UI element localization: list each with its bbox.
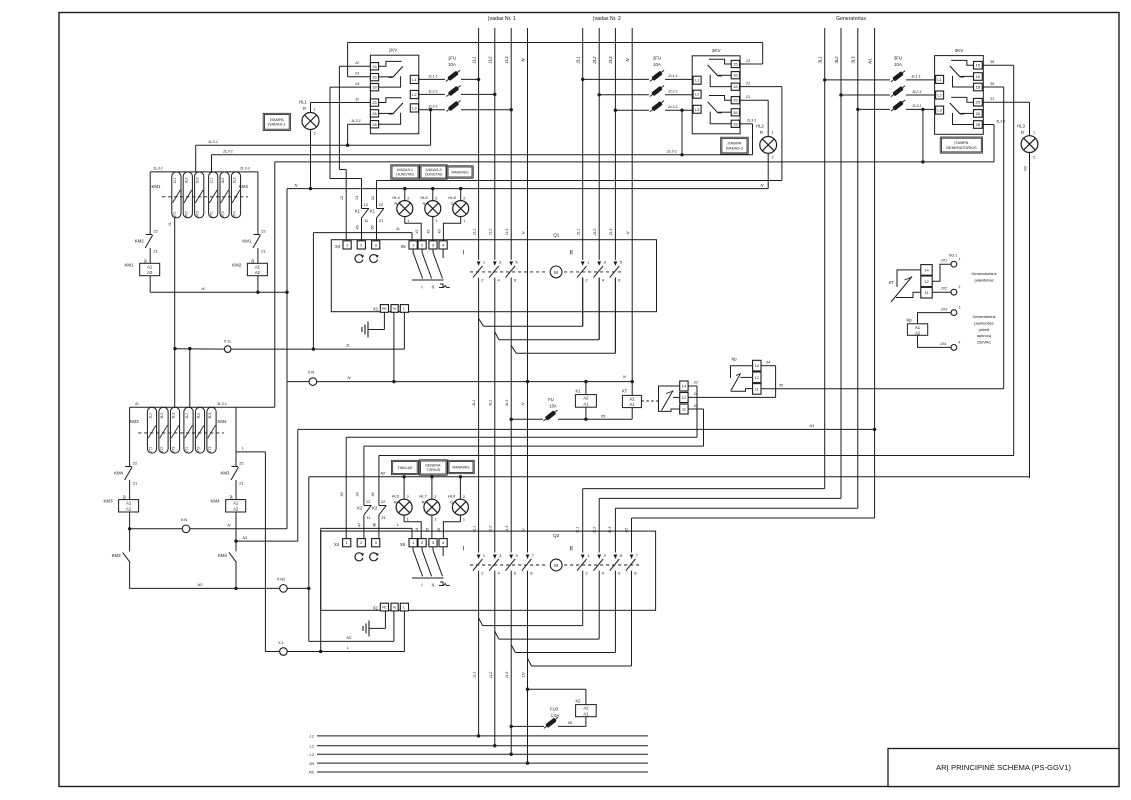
wire net36 to lower [379, 456, 1014, 506]
svg-text:N: N [393, 307, 396, 311]
1KV output L1 [410, 75, 418, 83]
svg-text:Kp: Kp [731, 357, 737, 362]
svg-text:N1: N1 [867, 58, 872, 63]
terminal X:N lower [181, 517, 190, 533]
wire N1 line lower [234, 535, 297, 543]
coil KM1 [124, 259, 159, 276]
svg-text:L1: L1 [937, 77, 942, 82]
label 1L2 top [488, 56, 493, 64]
label 1L3 top [504, 56, 509, 64]
wire 3L1 turn to Q2 [583, 489, 825, 553]
terminal block X5 lower label [400, 542, 406, 547]
switch Q2 pole II-3 [610, 553, 623, 576]
KM1/KM2 mechanical link dashed [162, 196, 248, 198]
KT contact terminal 14 [680, 381, 688, 391]
wire X:1L left [173, 347, 224, 350]
svg-text:4L1: 4L1 [471, 400, 476, 407]
svg-text:KM4: KM4 [218, 553, 228, 558]
contactor KM4 label [217, 419, 227, 424]
svg-text:2L1: 2L1 [576, 229, 581, 237]
wire N1 horizontal [298, 423, 877, 431]
relay 1KV box [370, 48, 418, 134]
svg-text:1L: 1L [167, 222, 172, 226]
KM3/KM4 pole 3 [170, 407, 179, 453]
relay KT coil [622, 389, 642, 408]
svg-text:L3: L3 [412, 105, 417, 110]
selector switch lower [412, 547, 444, 578]
wire N corner riser [286, 189, 288, 382]
svg-text:22: 22 [379, 202, 384, 207]
wire Kp 35 long [761, 384, 1004, 389]
svg-text:11: 11 [355, 96, 359, 101]
wire Q2 II-2 output [499, 571, 599, 640]
svg-text:5L3: 5L3 [208, 413, 212, 419]
svg-text:KT: KT [622, 389, 628, 394]
terminal block X5 label [400, 244, 406, 249]
svg-text:3L1: 3L1 [818, 57, 823, 64]
svg-text:A1: A1 [126, 501, 132, 506]
svg-text:A2: A2 [126, 506, 132, 511]
svg-text:2L3-1: 2L3-1 [746, 119, 756, 123]
svg-text:3L1: 3L1 [574, 527, 579, 534]
label 2L1 top [576, 57, 581, 65]
contact K2 no.2 [372, 499, 386, 520]
label N top (grp1) [520, 58, 525, 62]
ground symbol lower [363, 611, 385, 637]
wire 3L3-1 horizontal [275, 160, 994, 163]
fuse 1FU pole2 [445, 84, 462, 99]
svg-text:14: 14 [682, 384, 687, 389]
svg-text:10A: 10A [894, 62, 902, 67]
svg-text:6T3: 6T3 [196, 211, 200, 217]
svg-text:K1: K1 [355, 209, 361, 214]
KM1/KM2 pole 4 [209, 172, 218, 218]
wire N2 line lower-left [130, 582, 280, 590]
svg-text:21: 21 [745, 94, 750, 99]
svg-text:6T3: 6T3 [208, 447, 212, 453]
jog join 1L2 [495, 332, 499, 340]
svg-text:M: M [554, 270, 558, 275]
svg-text:1L3: 1L3 [504, 228, 509, 235]
svg-text:3L3-1: 3L3-1 [912, 104, 921, 108]
terminal block X4 label [335, 244, 341, 249]
2KV input L2 [693, 90, 701, 98]
svg-text:2KV: 2KV [712, 48, 722, 53]
wire HL3 bottom N2 [1022, 153, 1029, 479]
svg-text:KM3: KM3 [103, 499, 113, 504]
svg-text:L3: L3 [310, 752, 315, 757]
wire Q2 II-3 output [515, 571, 615, 653]
bus PE [309, 770, 648, 775]
junction dots group1 fuses [477, 78, 513, 112]
svg-text:1L1: 1L1 [149, 413, 153, 419]
wire 2L3 vertical [614, 28, 616, 353]
wire K2c1 to X4-2 [358, 515, 364, 539]
wire HL4 top [404, 189, 406, 201]
terminal X:1L [224, 338, 233, 352]
svg-text:X:L: X:L [278, 640, 285, 645]
svg-text:26: 26 [372, 111, 377, 116]
svg-text:Q1: Q1 [553, 233, 560, 238]
svg-text:X:N: X:N [308, 370, 315, 375]
svg-text:L2: L2 [937, 93, 942, 98]
3KV input L3 [936, 106, 944, 114]
wire 2L2 vertical [598, 28, 600, 340]
wire 2KV 13 [740, 43, 763, 65]
svg-text:Q2: Q2 [553, 533, 560, 538]
contact KM4 NC (left) [114, 461, 138, 486]
svg-text:2: 2 [463, 495, 465, 499]
jog join 1L1 [479, 319, 484, 327]
svg-text:X4: X4 [335, 244, 341, 249]
2KV terminal 15 [731, 60, 739, 67]
svg-text:A1: A1 [629, 402, 635, 407]
svg-text:25: 25 [733, 98, 738, 103]
X4L terminal 3 [372, 539, 380, 547]
svg-text:N: N [228, 522, 231, 527]
svg-text:25: 25 [976, 100, 981, 105]
svg-text:L3: L3 [937, 108, 942, 113]
relay Kp contact label [731, 357, 737, 362]
wire L square drop [403, 312, 405, 349]
svg-text:M: M [554, 563, 558, 568]
wire 3L3 vertical [857, 28, 859, 508]
contactor KM1 label [151, 184, 161, 189]
wire 1L2 vertical [494, 28, 496, 746]
svg-text:R: R [303, 106, 306, 111]
lamp HL3 [1017, 124, 1038, 160]
junction dots group3 fuses [823, 78, 925, 111]
svg-text:HL2: HL2 [756, 124, 764, 129]
wire N1 drop left [297, 429, 299, 541]
mode box RANKINIS lower [448, 460, 474, 473]
fuse 1FU pole1 [445, 69, 462, 84]
wire L to X5 lower [321, 522, 412, 539]
contact KM1 NC (right) [242, 229, 266, 254]
wire 3L1-1 [825, 75, 936, 80]
3KV input L1 [936, 75, 944, 83]
3KV terminal 26 [974, 110, 983, 118]
svg-text:K1: K1 [575, 389, 581, 394]
wire N1 vertical [874, 28, 876, 518]
svg-text:10A: 10A [448, 62, 456, 67]
1KV relay contact lower [379, 98, 403, 125]
wire net22 drop to K1 [371, 181, 377, 209]
wire N2 from X1 lower [309, 611, 394, 642]
svg-text:KM1: KM1 [124, 262, 134, 267]
svg-text:1L1: 1L1 [185, 413, 189, 419]
3KV terminal 15 [974, 61, 983, 69]
wire HL7 to X5-3 [426, 515, 432, 539]
lamp HL4 [392, 195, 412, 223]
svg-text:28: 28 [733, 121, 738, 126]
svg-text:1L2: 1L2 [488, 671, 493, 678]
coil KM3 [103, 495, 138, 512]
connector XG:1 pin2 [951, 285, 961, 295]
KT timer blade [662, 391, 680, 411]
label 3L3 top [851, 56, 856, 64]
svg-text:HL3: HL3 [1017, 124, 1025, 129]
Kp wire 12 [741, 376, 753, 378]
svg-text:N1: N1 [810, 423, 815, 428]
X1 terminal PE upper [380, 305, 388, 313]
text generator start [971, 271, 996, 283]
lamp HL2 [756, 124, 776, 160]
svg-text:12: 12 [682, 395, 687, 400]
wire N1 turn to Q2 [632, 518, 875, 553]
svg-text:HL7: HL7 [419, 494, 427, 499]
wire 1L3-1 into 1KV term 28 [348, 118, 371, 145]
wire KM1 coil to N [149, 276, 151, 293]
KT gen terminal 14 [921, 265, 932, 276]
switch Q1 pole I-3 [506, 260, 519, 283]
selector switch upper [412, 249, 444, 280]
svg-text:2L3-1: 2L3-1 [239, 165, 250, 170]
svg-text:2: 2 [772, 155, 774, 160]
svg-text:N2: N2 [1022, 165, 1027, 171]
rotation arrow 3 [355, 553, 364, 561]
terminal block X4 lower label [334, 542, 340, 547]
wire Q1 II-3 output [516, 278, 615, 354]
wire X:L right [287, 645, 404, 653]
1KV terminal 26 [370, 110, 378, 117]
svg-text:2L3: 2L3 [608, 56, 613, 65]
svg-text:I: I [462, 546, 464, 553]
svg-text:1: 1 [434, 518, 436, 522]
Kp contact terminal 11 [753, 384, 761, 395]
svg-text:G: G [450, 500, 453, 505]
svg-text:X1: X1 [373, 307, 379, 312]
svg-text:18: 18 [976, 85, 981, 90]
switch Q1 pole II-3 [610, 260, 623, 283]
1KV terminal 25 [370, 99, 378, 106]
svg-text:XG:1: XG:1 [949, 253, 958, 258]
KM3/KM4 mechanical link dashed [138, 432, 224, 434]
svg-text:Generatoriaus: Generatoriaus [971, 271, 996, 276]
X5L terminal 2 [418, 539, 426, 547]
svg-text:1L2-1: 1L2-1 [428, 89, 437, 93]
wire L riser to X:L [264, 452, 266, 652]
wire 101 [932, 259, 950, 282]
svg-text:2: 2 [463, 197, 465, 201]
svg-text:2L3-1: 2L3-1 [222, 149, 233, 154]
contact KM4 aux [218, 541, 237, 562]
svg-text:ARĮ PRINCIPINĖ SCHEMA (PS-GGV1: ARĮ PRINCIPINĖ SCHEMA (PS-GGV1) [936, 763, 1071, 772]
switch Q2 pole II-2 [594, 553, 607, 576]
svg-text:paleidimas: paleidimas [974, 278, 993, 283]
labels above Q2 [471, 525, 628, 533]
svg-text:L: L [347, 645, 349, 650]
svg-text:KM3: KM3 [129, 419, 139, 424]
svg-text:14: 14 [924, 267, 929, 272]
wire 3L2 vertical [840, 28, 842, 498]
3KV relay contact lower [950, 97, 974, 124]
svg-text:ĮVADAS-2: ĮVADAS-2 [726, 145, 743, 150]
wire 2KV 2L3-1 out [740, 119, 757, 155]
svg-text:GENERA-: GENERA- [425, 464, 442, 468]
1KV terminal 16 [370, 74, 378, 81]
wire 1L3-1 horizontal [196, 139, 431, 147]
connector XG:1 pin4 [951, 340, 961, 350]
wire net12 riser [339, 66, 346, 241]
wire 3L1 vertical [824, 28, 826, 489]
KM3/KM4 pole 5 [195, 407, 204, 453]
svg-text:2: 2 [407, 495, 409, 499]
KM3/KM4 pole 2 [159, 407, 168, 453]
timer contact KT (gen) bracket [896, 270, 921, 298]
svg-text:2L3: 2L3 [608, 228, 613, 236]
svg-text:pasiruošęs: pasiruošęs [974, 320, 993, 325]
svg-text:21: 21 [261, 249, 266, 254]
svg-text:5L3: 5L3 [196, 178, 200, 184]
svg-text:4L2: 4L2 [488, 399, 493, 406]
junction dots N mid line [392, 374, 634, 384]
fuse 3FU pole3 [890, 98, 907, 113]
svg-text:Įvadas Nr. 2: Įvadas Nr. 2 [593, 16, 621, 22]
bus L3 [310, 752, 648, 757]
1KV terminal 18 [370, 84, 378, 91]
rotation arrow 1 [355, 255, 364, 263]
labels 4L mid [471, 399, 525, 406]
svg-text:1L1: 1L1 [471, 229, 476, 236]
svg-text:N: N [520, 402, 525, 405]
wire 1L3-1 fuse wire [419, 105, 512, 110]
wire X:N2 right [287, 587, 310, 590]
svg-text:L3: L3 [695, 107, 700, 112]
svg-text:KM2: KM2 [135, 239, 145, 244]
svg-text:15: 15 [372, 64, 377, 69]
wire 1L to X5 sq1 [313, 226, 412, 241]
svg-text:KM1: KM1 [242, 239, 252, 244]
svg-text:FU: FU [548, 397, 554, 402]
wire L square drop lower [403, 611, 405, 652]
svg-text:K1: K1 [370, 209, 376, 214]
KT gen terminal 11 [921, 287, 932, 298]
svg-text:X:N2: X:N2 [277, 577, 286, 582]
wire HL1 top [310, 103, 312, 113]
3KV terminal 18 [974, 83, 983, 91]
svg-text:L: L [242, 446, 244, 451]
svg-text:2L1: 2L1 [576, 57, 581, 65]
wire 3KV 35 [982, 81, 1003, 389]
KT gen blade [889, 277, 912, 303]
svg-text:3L3: 3L3 [851, 56, 856, 64]
wire 1L1-1 [419, 74, 479, 79]
svg-text:R: R [422, 500, 425, 505]
wire 1L pole output [167, 218, 175, 407]
KM3/KM4 pole 6 [207, 407, 216, 453]
wire 13 into 1KV [348, 71, 371, 77]
svg-text:2: 2 [959, 285, 961, 289]
fuse 3FU pole2 [890, 84, 907, 99]
svg-text:N: N [295, 182, 298, 187]
wire KT coil top [631, 382, 633, 396]
motor drive M (Q1) [550, 266, 562, 278]
svg-text:1L: 1L [135, 401, 139, 406]
wire KM4 aux to N2 [235, 562, 237, 588]
wire Kp 34 [761, 361, 776, 398]
svg-text:4L3: 4L3 [504, 399, 509, 406]
title block [888, 749, 1119, 787]
KT contact terminal 12 [680, 393, 688, 403]
svg-text:2T1: 2T1 [210, 211, 214, 218]
wire KM coils N line [150, 286, 288, 294]
KM1/KM2 pole 1 [172, 172, 181, 218]
svg-text:N1: N1 [243, 535, 248, 540]
wire 3KV 31 [982, 96, 1029, 136]
svg-text:1L1: 1L1 [210, 178, 214, 184]
switch Q1 position I label [462, 250, 464, 257]
wire 1L1 vertical [478, 28, 480, 736]
wire to KM3 coil [129, 480, 131, 500]
svg-text:N2: N2 [347, 635, 353, 640]
svg-text:FU3: FU3 [550, 707, 559, 712]
KM1/KM2 pole 2 [183, 172, 192, 218]
2KV relay contact upper [708, 59, 732, 86]
svg-text:priimti: priimti [979, 327, 990, 332]
wire 1L3-1 drop to KM poles [195, 145, 197, 172]
contact K1 no.1 [355, 202, 369, 223]
wire HL4 to X5-2 [405, 216, 421, 241]
svg-text:230VAC: 230VAC [977, 340, 992, 345]
wire 2L1 vertical [582, 28, 584, 326]
2KV input L3 [693, 105, 701, 113]
svg-text:1L3-1: 1L3-1 [428, 105, 437, 109]
KT contact terminal 11 [680, 404, 688, 414]
text generator ready [972, 314, 995, 345]
fuse 2FU pole2 [649, 84, 666, 99]
Q2 mechanical dashed link [470, 564, 640, 566]
svg-text:104: 104 [940, 342, 946, 346]
wire Q2 II-1 output [483, 571, 583, 626]
wire N line mid [287, 375, 632, 382]
junction dots group2 fuses [581, 78, 684, 112]
svg-text:2L2: 2L2 [592, 228, 597, 236]
relay K1 coil [575, 389, 596, 408]
wire KM4 coil to N1 [235, 512, 237, 541]
X5L terminal 1 [409, 539, 417, 547]
svg-text:21: 21 [381, 515, 386, 520]
svg-text:X1: X1 [373, 605, 379, 610]
svg-text:21: 21 [133, 481, 138, 486]
svg-text:1N: 1N [309, 761, 314, 766]
svg-text:26: 26 [733, 110, 738, 115]
wire HL2 bottom to N [767, 153, 769, 188]
switch Q1 pole I-1 [473, 260, 486, 283]
label N1 top [867, 58, 872, 63]
wire 2L3-1 fuse [615, 105, 693, 110]
svg-text:3L2: 3L2 [834, 56, 839, 64]
bus L1 [310, 734, 648, 739]
contact K2 no.1 [357, 499, 371, 520]
svg-text:12: 12 [366, 499, 371, 504]
KM1/KM2 pole 5 [220, 172, 229, 218]
3KV terminal 16 [974, 73, 983, 81]
svg-text:22: 22 [745, 80, 751, 85]
svg-text:X:N: X:N [181, 517, 188, 522]
svg-text:A1: A1 [583, 711, 589, 716]
KM3/KM4 pole 1 [147, 407, 156, 453]
wire L tap [236, 446, 265, 452]
wire 1L3 vertical [510, 28, 512, 754]
wire 3L3-1 drop [922, 109, 924, 161]
wire net14 riser [330, 87, 362, 208]
svg-text:PE: PE [382, 307, 387, 311]
svg-text:16: 16 [976, 74, 981, 79]
svg-text:1L1: 1L1 [471, 57, 476, 64]
1KV relay contact upper [379, 61, 403, 87]
svg-text:103: 103 [941, 307, 948, 311]
